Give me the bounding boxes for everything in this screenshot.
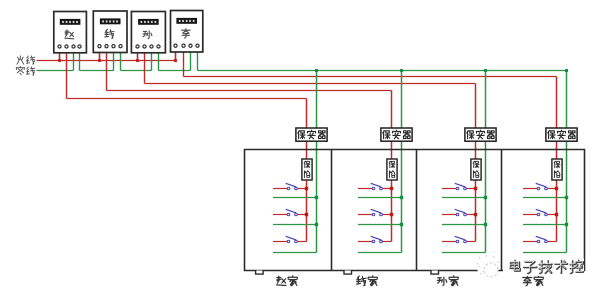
wire meter M3 neutral-in stub to 零线 bus [151, 48, 153, 70]
house 2 name label 钱家 [357, 276, 378, 286]
house partition wall 4 [501, 150, 503, 271]
wire meter M4 neutral-out stub to 零线 bus [197, 48, 199, 71]
meter M1 terminal 2 [65, 45, 68, 48]
junction dots on 零线 bus at house drops [315, 69, 568, 72]
meter M4 terminal 1 [174, 44, 177, 47]
meter M1 register display [60, 20, 79, 25]
wire meter M3 neutral-out stub to 零线 bus [158, 48, 160, 70]
meter M3 name label 孙 [143, 31, 152, 39]
wire meter M2 live-out drop to stair level [106, 48, 108, 91]
switch S31 (open knife switch) [455, 183, 467, 190]
wire branch 3 neutral return, house 4 [523, 252, 567, 254]
house row outer walls [245, 150, 585, 271]
wire meter M1 neutral-in stub to 零线 bus [73, 48, 75, 70]
meter M4 terminal 4 [196, 44, 199, 47]
switch S32 (open knife switch) [455, 209, 467, 216]
house 1 door notch [256, 271, 264, 275]
meter M2 register display [101, 19, 120, 24]
wire branch 1 neutral return, house 3 [442, 197, 486, 199]
wire live drop into house 1 through 保安器 and 保险 [306, 99, 308, 242]
wire branch 2 neutral return, house 1 [273, 224, 317, 226]
switch S33 (open knife switch) [455, 236, 467, 243]
switch S23 (open knife switch) [371, 236, 383, 243]
meter M4 terminal 2 [182, 44, 185, 47]
wire 火线 live bus [37, 60, 177, 62]
house 1 name label 赵家 [277, 276, 298, 286]
switch S42 (open knife switch) [536, 209, 548, 216]
meter M3 (孙) enclosure [131, 12, 165, 53]
meter M1 terminal 1 [58, 45, 61, 48]
junction dots house 4 live bus [555, 187, 558, 216]
switch S43 (open knife switch) [536, 236, 548, 243]
wire branch 3 neutral return, house 2 [358, 252, 402, 254]
switch S22 (open knife switch) [371, 209, 383, 216]
meter M2 terminal 1 [98, 45, 101, 48]
house 4 door notch [516, 271, 524, 275]
wire neutral drop from 零线 bus into house 4 [566, 71, 568, 253]
switch S21 (open knife switch) [371, 183, 383, 190]
wire branch 1 live lead, house 3 [442, 188, 476, 190]
wire meter M4 live-in stub to 火线 bus [175, 48, 177, 63]
wire branch 2 neutral return, house 4 [523, 224, 567, 226]
wire live drop into house 3 through 保安器 and 保险 [475, 84, 477, 242]
wire live feed M3 to house 3 (horizontal run) [145, 83, 476, 85]
house partition wall 2 [331, 150, 333, 271]
house 2 door notch [344, 271, 352, 275]
wire meter M1 live-out drop to stair level [66, 48, 68, 98]
wire meter M2 neutral-in stub to 零线 bus [113, 48, 115, 71]
wire live feed M4 to house 4 (horizontal run) [184, 76, 557, 78]
wire branch 2 live lead, house 1 [273, 214, 307, 216]
wire branch 1 neutral return, house 2 [358, 197, 402, 199]
wire branch 3 live lead, house 3 [442, 241, 476, 243]
wire meter M1 neutral-out stub to 零线 bus [79, 48, 81, 70]
meter M1 terminal 4 [78, 45, 81, 48]
meter M1 terminal 3 [72, 45, 75, 48]
house 3 door notch [431, 271, 439, 275]
meter M2 (钱) enclosure [93, 11, 127, 53]
net label 火线 (live) [17, 56, 35, 64]
wire meter M1 live-in stub to 火线 bus [59, 48, 61, 62]
meter M4 terminal 3 [189, 44, 192, 47]
fuse F3 保险 box [471, 159, 481, 180]
switch S11 (open knife switch) [286, 183, 298, 190]
wire branch 2 live lead, house 3 [442, 214, 476, 216]
junction dots house 1 live bus [305, 187, 308, 216]
wire live feed M1 to house 1 (horizontal run) [67, 98, 307, 100]
wire branch 3 neutral return, house 3 [442, 252, 486, 254]
meter M4 (李) enclosure [171, 11, 203, 53]
wire branch 1 live lead, house 4 [523, 188, 557, 190]
wire branch 2 live lead, house 4 [523, 214, 557, 216]
meter M3 terminal 4 [157, 45, 160, 48]
junction dots on 火线 bus [58, 59, 177, 62]
wire branch 3 live lead, house 4 [523, 241, 557, 243]
switch S12 (open knife switch) [286, 209, 298, 216]
junction dots house 3 live bus [474, 187, 477, 216]
wire branch 1 live lead, house 2 [358, 188, 392, 190]
wire meter M4 live-out drop to stair level [183, 48, 185, 77]
meter M2 name label 钱 [105, 29, 114, 38]
protector U2 保安器 label box [381, 128, 412, 141]
switch S13 (open knife switch) [286, 236, 298, 243]
wire live drop into house 2 through 保安器 and 保险 [391, 91, 393, 242]
house partition wall 3 [416, 150, 418, 271]
wire live feed M2 to house 2 (horizontal run) [107, 90, 392, 92]
wire branch 2 neutral return, house 3 [442, 224, 486, 226]
meter M3 register display [139, 20, 158, 25]
fuse F4 保险 box [552, 159, 562, 180]
watermark text 电子技术控 on white stamp (embossed) [503, 259, 584, 277]
wire branch 3 live lead, house 2 [358, 241, 392, 243]
wire branch 1 neutral return, house 4 [523, 197, 567, 199]
wire branch 1 live lead, house 1 [273, 188, 307, 190]
net label 零线 (neutral) [16, 66, 35, 75]
meter M2 terminal 2 [105, 45, 108, 48]
protector U4 保安器 label box [546, 128, 577, 141]
wire meter M2 live-in stub to 火线 bus [99, 48, 101, 62]
wire live drop into house 4 through 保安器 and 保险 [556, 77, 558, 242]
house 3 name label 孙家 [437, 276, 458, 286]
wire 零线 neutral bus (daisy-chained through meters) [37, 70, 567, 72]
meter M4 register display [177, 19, 196, 24]
house 4 name label 李家 [523, 276, 543, 286]
junction dots house 1 neutral bus [315, 196, 318, 226]
wire meter M3 live-out drop to stair level [144, 48, 146, 83]
wire branch 1 neutral return, house 1 [273, 197, 317, 199]
meter M4 name label 李 [182, 29, 191, 38]
fuse F1 保险 box [302, 159, 312, 180]
wire meter M4 neutral-in stub to 零线 bus [190, 48, 192, 71]
junction dots house 3 neutral bus [484, 196, 487, 226]
meter M1 (赵) enclosure [54, 12, 87, 53]
meter M3 terminal 1 [136, 45, 139, 48]
wire branch 3 live lead, house 1 [273, 241, 307, 243]
junction dots house 2 live bus [390, 187, 393, 216]
meter M3 terminal 2 [143, 45, 146, 48]
meter M2 terminal 3 [112, 45, 115, 48]
fuse F2 保险 box [387, 159, 397, 180]
protector U1 保安器 label box [296, 128, 327, 141]
wire meter M3 live-in stub to 火线 bus [137, 48, 139, 62]
watermark logo (hand holding sphere sketch) [477, 255, 499, 279]
meter M3 terminal 3 [150, 45, 153, 48]
wire branch 2 neutral return, house 2 [358, 224, 402, 226]
wire branch 2 live lead, house 2 [358, 214, 392, 216]
junction dots house 4 neutral bus [565, 196, 568, 226]
wire branch 3 neutral return, house 1 [273, 252, 317, 254]
switch S41 (open knife switch) [536, 183, 548, 190]
wire neutral drop from 零线 bus into house 3 [485, 71, 487, 253]
protector U3 保安器 label box [465, 128, 496, 141]
junction dots house 2 neutral bus [400, 196, 403, 226]
wire neutral drop from 零线 bus into house 1 [316, 71, 318, 253]
meter M1 name label 赵 [65, 30, 74, 39]
wire meter M2 neutral-out stub to 零线 bus [120, 48, 122, 71]
wire neutral drop from 零线 bus into house 2 [401, 71, 403, 253]
meter M2 terminal 4 [119, 45, 122, 48]
